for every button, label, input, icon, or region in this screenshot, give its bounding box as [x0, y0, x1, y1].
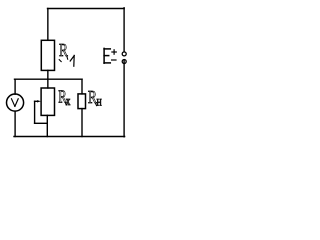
svg-text:H: H: [97, 99, 102, 109]
battery plus sign: [112, 50, 116, 54]
resistor RH: [78, 94, 86, 109]
label R1 subscript 1: [70, 56, 74, 61]
wire R1 bottom through mid rail to Rx top: [47, 70, 49, 88]
svg-text:R: R: [59, 40, 68, 60]
label V: [12, 99, 15, 107]
wire through - terminal down to bottom right corner: [123, 60, 125, 137]
battery + terminal circle: [122, 52, 126, 56]
wire right drop from top rail to battery + terminal: [123, 8, 125, 52]
battery E label: [104, 48, 110, 63]
voltmeter V1 circle: [7, 94, 24, 111]
wire mid rail down to RH top: [81, 79, 83, 94]
wire RH bottom to bottom rail: [81, 109, 83, 137]
wire mid rail down to V meter: [14, 79, 16, 94]
wire Rx bottom to bottom rail: [46, 115, 48, 136]
rheostat wiper arrow on Rx: [35, 100, 38, 102]
wire wiper horizontal to Rx bottom wire: [35, 122, 48, 124]
wire wiper down: [34, 101, 36, 123]
battery minus sign: [112, 59, 116, 61]
wire V meter bottom to bottom rail: [14, 111, 16, 136]
resistor Rx: [41, 88, 54, 115]
wire from top rail down to R1: [47, 9, 49, 41]
battery - terminal circle: [122, 60, 126, 64]
wire mid rail: [15, 78, 83, 80]
resistor R1: [41, 40, 54, 70]
wire top rail: [48, 8, 125, 10]
svg-text:x: x: [66, 93, 71, 108]
wire bottom rail: [14, 136, 125, 138]
